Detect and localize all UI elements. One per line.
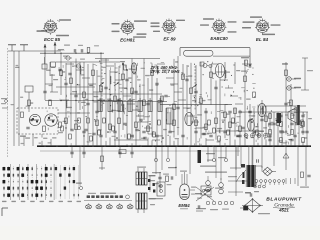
power entry cluster bbox=[241, 57, 252, 72]
wire rail out bbox=[245, 111, 308, 113]
left pigtail parts bbox=[76, 183, 129, 199]
wire verticals bundle bbox=[14, 51, 307, 146]
FM tuner dashed enclosure bbox=[17, 108, 58, 134]
tube pinout V3 EF89 bbox=[162, 19, 177, 35]
antenna filter box bbox=[25, 86, 33, 92]
band filter coil pack bbox=[98, 98, 162, 111]
misc bottom text bbox=[152, 166, 237, 189]
output transformer bbox=[236, 146, 255, 187]
wire rail if2 bbox=[70, 93, 162, 95]
switch matrix labels bbox=[2, 201, 81, 202]
pot arrow bbox=[248, 118, 253, 122]
tuning gang link 2 bbox=[194, 66, 196, 110]
heater pins row bbox=[255, 180, 285, 185]
mains text bbox=[258, 213, 270, 214]
tube pinout V5 EL84 bbox=[255, 19, 270, 35]
tuning arrow 3 bbox=[192, 84, 197, 88]
trimmer feed wire bbox=[84, 200, 132, 202]
wire rail if1 bbox=[56, 86, 95, 88]
padder block row bbox=[87, 195, 123, 198]
junction dots on bus bbox=[44, 145, 310, 147]
pin labels around EL84 bbox=[242, 16, 281, 35]
coils bundle bbox=[66, 66, 263, 114]
labels above antenna rail bbox=[64, 45, 99, 47]
wave-band switch contact matrix bbox=[3, 164, 80, 200]
wire rail rf bbox=[95, 58, 160, 60]
filament circles row bbox=[244, 134, 268, 138]
tube pinout V2 ECH81 bbox=[120, 20, 135, 36]
wire rail left low bbox=[58, 112, 90, 114]
driver cone bbox=[288, 108, 297, 124]
chassis ground bus bbox=[37, 145, 311, 147]
phase splitter cross wires bbox=[196, 187, 214, 201]
svg-text:ECC 85: ECC 85 bbox=[44, 37, 61, 42]
left edge terminal cluster bbox=[1, 98, 8, 108]
diode load parts bbox=[200, 62, 212, 68]
pilot lamp pair 2 bbox=[219, 178, 224, 194]
power wiring bbox=[228, 146, 250, 196]
left filter box bottom bbox=[155, 182, 172, 199]
FM antenna arrow bbox=[54, 42, 57, 53]
contact marks near T1 bbox=[148, 176, 155, 193]
EM84 wiring bbox=[190, 187, 196, 195]
mixer input box bbox=[42, 57, 47, 69]
tube pinout V1 ECC85 bbox=[43, 19, 58, 35]
svg-text:EL 84: EL 84 bbox=[256, 37, 269, 42]
IF transformer T1 bbox=[136, 168, 156, 185]
wire rail nfb bbox=[264, 105, 306, 107]
dark component block bbox=[277, 113, 282, 123]
speaker terminal block bbox=[201, 186, 211, 195]
tube V6 EM84 bbox=[180, 172, 189, 200]
tuning arrow 2 bbox=[114, 82, 119, 86]
pin labels around EF89 bbox=[151, 20, 186, 32]
trimmer capacitors row bbox=[86, 205, 134, 209]
svg-text:EABC80: EABC80 bbox=[210, 36, 228, 41]
wire rail antenna bbox=[8, 50, 61, 52]
below-bus contacts bbox=[154, 146, 238, 162]
IF transformer T2 bbox=[136, 193, 156, 213]
dial scale box bbox=[184, 50, 214, 56]
B+ feed vertical bbox=[301, 58, 313, 90]
transformer pin labels bbox=[150, 180, 155, 205]
smoothing caps bbox=[255, 159, 262, 171]
svg-text:4521: 4521 bbox=[278, 208, 289, 213]
trimmer tick marks bbox=[89, 203, 131, 204]
rail y100 left bbox=[45, 100, 122, 101]
svg-text:EM84: EM84 bbox=[178, 203, 190, 208]
capacitors bundle bbox=[29, 79, 308, 137]
circle jack 2 bbox=[287, 86, 291, 90]
oscillator knot bbox=[120, 61, 128, 71]
heater pins row 2 bbox=[254, 185, 266, 188]
tube V3 EF89 envelope bbox=[185, 112, 193, 125]
pin labels around ECC85 bbox=[37, 19, 72, 36]
component value labels bbox=[11, 61, 312, 144]
lower-left extra parts bbox=[58, 118, 96, 137]
right edge parts bbox=[298, 170, 311, 188]
fuse box bbox=[240, 206, 248, 210]
pilot lamp pair 1 bbox=[206, 176, 211, 192]
corner registration mark bbox=[2, 208, 8, 216]
IF coil tall loop bbox=[167, 108, 174, 124]
tone cap stack bbox=[153, 172, 168, 192]
tube V1a triode bbox=[29, 114, 40, 125]
solder joints and stray marks bbox=[47, 61, 305, 147]
pin labels around EABC80 bbox=[200, 18, 237, 32]
dial glass box bbox=[180, 48, 250, 66]
wire to trimmer row bbox=[79, 146, 81, 186]
dial box bottom wire bbox=[213, 55, 250, 57]
labels right jacks bbox=[282, 63, 301, 88]
tube pinout V4 EABC80 bbox=[212, 19, 227, 35]
socket circles row bbox=[206, 201, 234, 205]
pin labels around ECH81 bbox=[112, 20, 148, 37]
output stage small parts bbox=[268, 114, 304, 143]
svg-text:ECH81: ECH81 bbox=[120, 38, 135, 43]
wire rail audio bbox=[216, 130, 264, 132]
wire rail low mid bbox=[114, 139, 148, 141]
AM antenna arrow bbox=[44, 44, 47, 57]
circle jack 1 bbox=[287, 77, 291, 81]
bottom annotation row bbox=[196, 208, 229, 210]
FM dipole antenna bbox=[8, 45, 28, 51]
wire rail mixer bbox=[56, 61, 120, 63]
tube V4 EABC80 envelope bbox=[215, 64, 224, 78]
voltage tap ticks bbox=[286, 178, 295, 184]
wire rail agc bbox=[100, 101, 167, 103]
svg-text:EF 89: EF 89 bbox=[163, 37, 176, 42]
bottom mid extra text bbox=[163, 167, 187, 180]
lower strip components bbox=[61, 118, 259, 141]
below-bus right parts bbox=[262, 146, 306, 170]
padder text row bbox=[88, 193, 116, 194]
FM front-end parts bbox=[44, 48, 101, 76]
line below bus bbox=[40, 150, 240, 152]
tube V1b triode bbox=[45, 114, 57, 126]
bus to bottom connectors bbox=[156, 146, 252, 180]
label EM84 sub bbox=[180, 208, 188, 209]
wire stubs bundle bbox=[45, 60, 243, 140]
wire rail det bbox=[160, 104, 232, 106]
tube V5 EL84 envelope bbox=[258, 103, 266, 116]
wire rail AM top bbox=[40, 52, 104, 54]
loudspeaker bbox=[242, 198, 263, 212]
below-bus caps bbox=[70, 146, 146, 170]
rectifier bridge bbox=[263, 167, 276, 176]
tube V2 ECH81 envelope bbox=[131, 63, 136, 73]
labels near output bbox=[206, 153, 226, 161]
speaker top parts bbox=[245, 191, 259, 197]
tuning gang link bbox=[101, 66, 103, 108]
FM box internal parts bbox=[20, 112, 45, 137]
resistors bundle bbox=[28, 70, 304, 132]
alignment dashed vertical bbox=[7, 48, 9, 158]
tuning arrow 1 bbox=[99, 82, 104, 86]
thick mark below bus bbox=[198, 150, 202, 163]
marks under thick bar bbox=[195, 193, 203, 211]
tube V4b envelope bbox=[248, 119, 255, 131]
